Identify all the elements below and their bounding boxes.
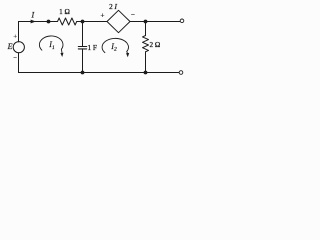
bottom wire bbox=[19, 72, 180, 74]
svg-text:I: I bbox=[30, 11, 34, 20]
junction node dot B (cap top) bbox=[81, 20, 85, 24]
svg-text:−: − bbox=[13, 54, 17, 61]
junction node dot A bbox=[47, 20, 51, 24]
resistor 2ohm branch upper wire bbox=[145, 22, 147, 36]
I2 arc arrowhead bbox=[126, 53, 129, 57]
current arrow I on top wire bbox=[31, 20, 36, 24]
svg-text:+: + bbox=[101, 12, 105, 20]
open terminal bottom-right bbox=[179, 71, 183, 75]
left branch wire lower bbox=[18, 53, 20, 73]
capacitor C1 plates bbox=[78, 47, 86, 49]
junction node dot C (2ohm top) bbox=[144, 20, 148, 24]
capacitor C branch upper wire bbox=[82, 22, 84, 47]
svg-text:−: − bbox=[131, 11, 135, 19]
wire resistor to diamond bbox=[77, 21, 107, 23]
I1 arc arrowhead bbox=[60, 53, 63, 57]
dependent source U1 diamond 2I bbox=[107, 10, 130, 32]
svg-text:1 Ω: 1 Ω bbox=[59, 8, 70, 16]
resistor 2ohm branch lower wire bbox=[145, 52, 147, 73]
junction node dot D (cap bottom) bbox=[81, 71, 85, 75]
left branch wire upper bbox=[18, 22, 20, 42]
svg-text:+: + bbox=[13, 34, 17, 41]
open terminal top-right bbox=[180, 19, 184, 23]
capacitor C branch lower wire bbox=[82, 49, 84, 73]
mesh current I2 arc bbox=[102, 38, 128, 53]
svg-text:2 I: 2 I bbox=[109, 3, 117, 11]
resistor R2 2ohm vertical zigzag bbox=[143, 36, 149, 52]
source E circle bbox=[13, 42, 24, 53]
svg-text:E: E bbox=[7, 42, 13, 51]
svg-text:2 Ω: 2 Ω bbox=[150, 41, 161, 49]
wire diamond to top-right terminal bbox=[130, 21, 180, 23]
mesh current I1 arc bbox=[39, 36, 63, 53]
resistor R 1ohm zigzag bbox=[58, 18, 77, 25]
svg-text:1 F: 1 F bbox=[88, 44, 97, 52]
junction node dot E2 (2ohm bottom) bbox=[144, 71, 148, 75]
wire top-left from corner to resistor bbox=[19, 21, 58, 23]
